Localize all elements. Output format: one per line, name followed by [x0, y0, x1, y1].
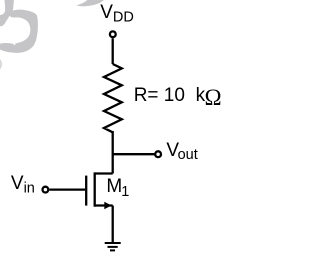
wire source to ground	[112, 206, 114, 244]
wire resistor to drain	[112, 131, 114, 174]
label R value	[134, 85, 185, 107]
wire Vin to gate	[49, 188, 85, 190]
resistor R	[104, 64, 122, 132]
ground	[105, 243, 121, 250]
label VDD	[100, 2, 134, 24]
transistor M1	[86, 172, 113, 209]
terminal Vout	[155, 151, 161, 157]
terminal VDD	[110, 31, 116, 37]
watermark	[0, 0, 105, 71]
terminal Vin	[43, 187, 49, 193]
label Vout	[166, 140, 197, 162]
label Vin	[11, 173, 35, 195]
wire VDD to resistor	[112, 38, 114, 64]
wire node to Vout	[113, 153, 155, 155]
label M1	[106, 176, 129, 198]
